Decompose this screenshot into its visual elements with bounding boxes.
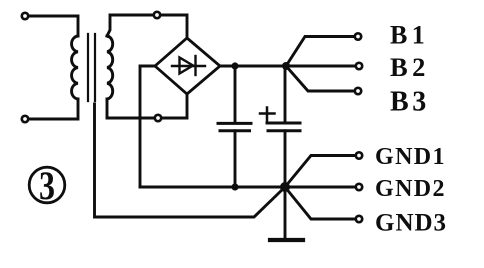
figure number circled 3 <box>29 163 65 208</box>
terminal B1 <box>355 33 361 39</box>
wire B1 branch <box>286 37 355 67</box>
wire primary bottom lead <box>29 99 78 119</box>
svg-text:B2: B2 <box>390 52 430 82</box>
ground symbol lead <box>284 187 287 238</box>
capacitor C2 bottom lead <box>284 131 287 187</box>
terminal GND2 <box>356 184 362 190</box>
svg-text:B3: B3 <box>390 87 430 118</box>
terminal primary top <box>22 13 28 19</box>
label GND1 <box>375 144 446 170</box>
capacitor C1 bottom lead <box>234 131 237 187</box>
capacitor C2 top lead <box>284 66 287 122</box>
terminal secondary bottom tap <box>155 115 161 121</box>
wire bridge negative: left corner down to bottom rail <box>140 66 155 187</box>
transformer T1 core <box>88 34 95 101</box>
wire B3 branch <box>286 66 355 91</box>
ground symbol bar <box>270 238 303 242</box>
label GND3 <box>375 210 447 237</box>
junction C1 top <box>231 62 238 69</box>
transformer T1 secondary winding <box>107 36 113 99</box>
label B2 <box>390 52 430 82</box>
terminal primary bottom <box>22 116 28 122</box>
capacitor C1 plates <box>218 123 251 130</box>
transformer T1 primary winding <box>72 36 78 99</box>
junction node B (positive output) <box>282 62 290 70</box>
wire bridge positive: right corner to B bus <box>220 65 356 68</box>
wire bottom rail (negative bus) <box>140 186 356 189</box>
wire GND3 branch <box>285 187 356 219</box>
capacitor C2 plates <box>267 123 300 131</box>
wire secondary bottom to bridge bottom <box>107 94 187 118</box>
svg-text:3: 3 <box>39 163 55 208</box>
terminal GND3 <box>356 216 362 222</box>
svg-text:GND2: GND2 <box>375 176 446 202</box>
wire primary top lead <box>29 16 78 36</box>
bridge rectifier D1 diamond <box>155 38 220 94</box>
capacitor C2 polarity plus <box>260 108 275 123</box>
svg-text:GND3: GND3 <box>375 210 447 237</box>
wire core ground run <box>95 104 286 217</box>
bridge rectifier D1 diode symbol <box>172 56 205 75</box>
terminal B2 <box>356 63 362 69</box>
label GND2 <box>375 176 446 202</box>
terminal B3 <box>355 88 361 94</box>
svg-text:GND1: GND1 <box>375 144 446 170</box>
label B1 <box>390 21 429 50</box>
junction node GND <box>280 182 290 192</box>
terminal GND1 <box>356 152 362 158</box>
svg-text:B1: B1 <box>390 21 429 50</box>
wire secondary top to bridge top <box>107 15 187 38</box>
label B3 <box>390 87 430 118</box>
wire GND1 branch <box>285 156 356 188</box>
junction C1 bottom <box>231 183 238 190</box>
terminal secondary top tap <box>154 12 160 18</box>
capacitor C1 top lead <box>234 66 237 122</box>
